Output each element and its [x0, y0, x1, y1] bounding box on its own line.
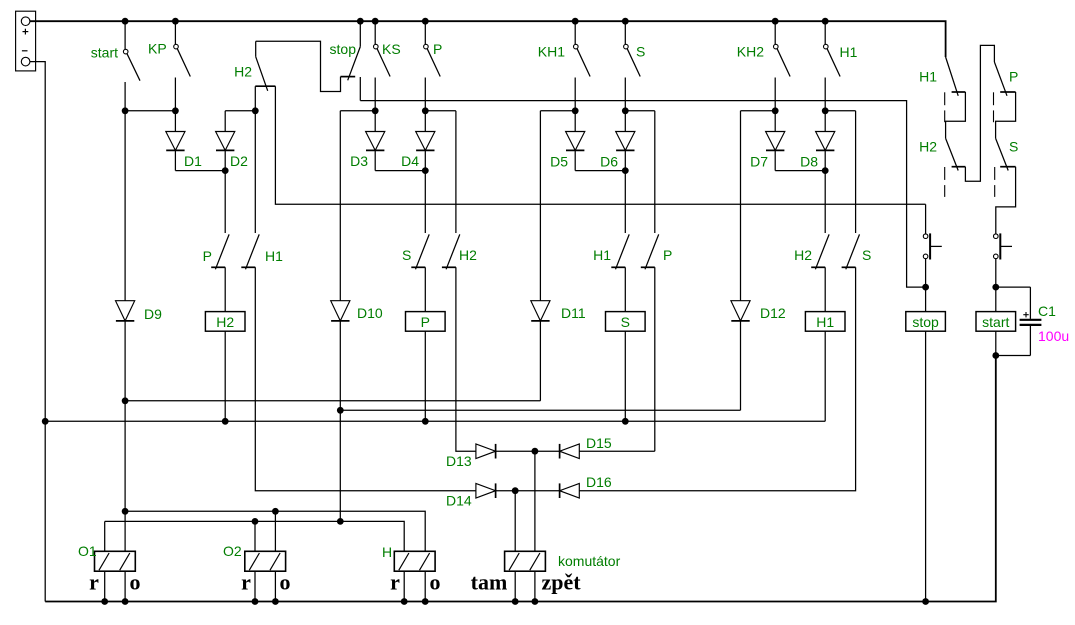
svg-text:P: P [433, 41, 442, 57]
svg-text:r: r [390, 570, 400, 595]
wire: start button to coil start [995, 259, 997, 312]
wire: coil P to bus 421 [424, 331, 426, 421]
wire: coil stop to bottom bus [925, 331, 927, 601]
wire: bus y=410.3 D10 to D12 [340, 409, 740, 411]
diode D13 [476, 444, 496, 459]
wire: D14/D16 junction down to komutator tam [514, 491, 516, 552]
contact H2 (NC, group4) [815, 234, 829, 269]
svg-text:D3: D3 [350, 153, 368, 169]
diode D14 [476, 483, 496, 498]
relay coil start [976, 312, 1016, 332]
wire: coil H2 to bus 421 [224, 331, 226, 421]
wire: D9 column to O-row [124, 401, 126, 512]
svg-text:r: r [89, 570, 99, 595]
relay coil stop [906, 312, 946, 332]
relay coil P [406, 312, 446, 332]
diode D1 [174, 111, 176, 132]
diode D15 [560, 444, 580, 459]
wire: bus y=400.8 D9 to D11 [125, 400, 540, 402]
svg-text:S: S [621, 314, 630, 330]
wire: coil start down [995, 331, 997, 355]
svg-text:H1: H1 [593, 247, 611, 263]
contact stop (NC) [359, 21, 361, 46]
wire: H2 bar right end down to bus y=204 [275, 86, 925, 204]
diode D4 [424, 111, 426, 132]
svg-text:o: o [130, 570, 141, 595]
wire: P contact down to D15 [654, 267, 656, 451]
wire: left r-feed down to O1 [104, 521, 106, 551]
contact S (NO top) [624, 21, 626, 44]
svg-text:D6: D6 [600, 154, 618, 170]
wire: O2 terminals up [254, 521, 256, 551]
svg-text:start: start [91, 45, 118, 61]
svg-text:O1: O1 [78, 543, 97, 559]
selector contact P (right) [994, 62, 1007, 96]
diode D11 [531, 301, 550, 321]
diode D8 [824, 111, 826, 132]
diode D2 [224, 111, 226, 132]
svg-text:start: start [982, 314, 1009, 330]
svg-text:H2: H2 [216, 314, 234, 330]
wire: S contact to coil P [424, 267, 426, 311]
diode D9 [124, 111, 126, 301]
wire: H1 contact down and right to D14 [255, 267, 476, 490]
diode D6 [624, 111, 626, 132]
wire: bus204 down to stop button [925, 204, 927, 234]
output coil H [394, 551, 435, 571]
pushbutton start [994, 234, 999, 239]
wire: H2 contact down to D13 [456, 267, 476, 451]
contact P (NO top) [424, 21, 426, 44]
diode D3 [374, 111, 376, 132]
bracket group4 [741, 110, 776, 112]
svg-text:D16: D16 [586, 474, 612, 490]
contact KP (NO) [174, 21, 176, 44]
diode D16 [560, 483, 580, 498]
contact H2 (NC, group2) [446, 234, 460, 269]
wire: D7/D8 cathodes join [775, 170, 825, 172]
svg-text:komutátor: komutátor [558, 553, 621, 569]
relay coil S [606, 312, 646, 332]
contact KH1 (NO) [574, 21, 576, 44]
svg-text:S: S [862, 247, 871, 263]
pushbutton stop [923, 234, 928, 239]
contact H1 (NO top) [824, 21, 826, 44]
wire: S bar down to start button [996, 167, 1016, 234]
wires: coil bottom leads to bottom bus [104, 571, 106, 601]
contact P (NC, group3) [645, 234, 659, 269]
svg-text:H2: H2 [919, 139, 937, 155]
selector contact H2 (right) [946, 138, 959, 170]
wire: line y=511.3 (o-feeds) [125, 511, 425, 551]
output coil O1 [95, 551, 136, 571]
svg-text:H2: H2 [459, 247, 477, 263]
svg-text:P: P [203, 248, 212, 264]
svg-text:S: S [402, 247, 411, 263]
svg-text:D10: D10 [357, 305, 383, 321]
svg-text:D7: D7 [750, 154, 768, 170]
wire: coil S to bus 421 [624, 331, 626, 421]
svg-text:D8: D8 [800, 154, 818, 170]
wire: bus y=421.3 coil commons to battery - [45, 420, 825, 422]
relay coil H1 [805, 312, 845, 332]
svg-text:zpět: zpět [541, 570, 581, 595]
contact KH2 (NO) [774, 21, 776, 44]
svg-text:C1: C1 [1038, 303, 1056, 319]
plus mark of C1 [1023, 314, 1028, 316]
contact KS (NO) [374, 21, 376, 44]
svg-text:D4: D4 [401, 153, 419, 169]
contact S (NC, group2) [416, 234, 430, 269]
contact H2 (NC, top left) with feed [255, 41, 257, 56]
svg-text:D9: D9 [144, 306, 162, 322]
wire: column x=225 D2 to P contact [224, 171, 226, 233]
contact S (NC, group4) [846, 234, 860, 269]
wire: H2 contact to coil H1 [824, 267, 826, 311]
contact H1 (NC, group1) [246, 234, 260, 269]
wire: - supply from battery down left side [30, 62, 45, 602]
svg-text:o: o [430, 570, 441, 595]
svg-text:D11: D11 [561, 305, 586, 321]
wire: D1/D2 cathodes join [175, 170, 225, 172]
capacitor C1 (electrolytic) in parallel with start coil [996, 286, 1031, 288]
wire: line y=521.4 (r-feeds) [105, 521, 405, 551]
output coil komutator [505, 551, 546, 571]
svg-text:H2: H2 [234, 64, 252, 80]
diode D7 [774, 111, 776, 132]
wire: P contact to coil H2 [224, 267, 226, 311]
svg-text:D15: D15 [586, 435, 612, 451]
svg-text:P: P [421, 314, 430, 330]
junction dots on + rail [122, 18, 129, 25]
wire: coil H1 to bus 421 [824, 331, 826, 421]
wire: H1 bar loop to H2 blade [946, 92, 966, 138]
svg-text:H1: H1 [840, 44, 858, 60]
contact start (NO) [124, 21, 126, 49]
svg-text:D14: D14 [446, 493, 472, 509]
wire: S contact down and left to D16 [579, 267, 855, 490]
wire: H2 bar down to feed column B [965, 45, 994, 181]
wire: D2 top to node at x=255 [225, 110, 255, 112]
svg-text:o: o [280, 570, 291, 595]
wire: D5/D6 cathodes join [575, 170, 625, 172]
svg-text:D13: D13 [446, 453, 472, 469]
svg-text:tam: tam [471, 570, 508, 595]
wire: bottom - bus [45, 356, 996, 602]
svg-text:P: P [663, 247, 672, 263]
wire: H1 contact to coil S [624, 267, 626, 311]
svg-text:KS: KS [382, 41, 401, 57]
contact H1 (NC, group3) [616, 234, 630, 269]
svg-text:O2: O2 [223, 543, 242, 559]
diode D5 [574, 111, 576, 132]
wire: + supply rail (top) [30, 21, 946, 57]
svg-text:H1: H1 [265, 248, 283, 264]
svg-text:H2: H2 [794, 247, 812, 263]
svg-text:KP: KP [148, 41, 167, 57]
svg-text:D1: D1 [184, 153, 202, 169]
svg-text:H1: H1 [816, 314, 834, 330]
wire: D3/D4 cathodes join [375, 170, 425, 172]
wire: bus y=100.6 from stop to right side [360, 101, 925, 288]
selector contact S (right) [996, 138, 1009, 170]
battery G1 (power source) [16, 11, 36, 71]
wire: O1 right terminal [124, 511, 126, 551]
svg-text:stop: stop [912, 314, 939, 330]
svg-text:P: P [1009, 69, 1018, 85]
svg-text:D5: D5 [550, 154, 568, 170]
diode D10 [331, 301, 350, 321]
svg-text:100u: 100u [1038, 328, 1069, 344]
diode D12 [731, 301, 750, 321]
wire: H2 bar left end down to node x=255 [254, 86, 256, 233]
node line start/KP bottoms y=110.8 [125, 110, 175, 112]
bracket group2: KS/P bottoms to D10 and H2 columns [340, 110, 375, 112]
wire: D13/D15 junction down to komutator zpet [534, 451, 536, 551]
bracket group3 [540, 110, 575, 112]
output coil O2 [245, 551, 286, 571]
svg-text:S: S [1009, 139, 1018, 155]
svg-text:D12: D12 [760, 305, 786, 321]
wire: stop button to coil stop [925, 259, 927, 312]
svg-text:H1: H1 [919, 69, 937, 85]
svg-text:KH1: KH1 [538, 44, 565, 60]
svg-text:H: H [382, 544, 392, 560]
svg-text:KH2: KH2 [737, 44, 764, 60]
svg-text:S: S [636, 44, 645, 60]
wire: Z-route stop bar to H2 top [256, 41, 341, 91]
svg-text:stop: stop [330, 41, 357, 57]
selector contact H1 (right) [946, 57, 959, 96]
svg-text:r: r [241, 570, 251, 595]
contact P (NC, group1) [215, 234, 229, 269]
svg-text:D2: D2 [230, 153, 248, 169]
wire: P bar loop to S blade [996, 92, 1016, 138]
relay coil H2 [205, 312, 245, 332]
